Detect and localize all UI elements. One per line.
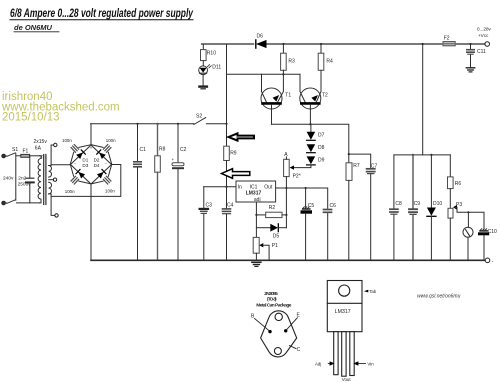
wire base rail [272, 124, 349, 163]
terminal sec-bot [55, 214, 58, 217]
wire T2 base lead [309, 105, 311, 125]
svg-text:S1: S1 [12, 147, 18, 153]
svg-text:Out: Out [264, 184, 273, 190]
junction raw feed [225, 123, 227, 125]
package drawing LM317 TO-220 [315, 281, 377, 383]
capacitor C3 [200, 209, 208, 214]
bridge inner diamond [71, 145, 112, 184]
wire T1 collector lead [262, 74, 267, 102]
wire [5, 155, 7, 157]
wire C5 bottom lead [305, 214, 307, 260]
wire top bus [202, 43, 486, 45]
diode D5 [270, 224, 286, 232]
resistor R4 [318, 53, 324, 70]
TO-220 tab divider [327, 302, 362, 304]
svg-text:C7: C7 [371, 164, 378, 170]
fuse F2 [443, 42, 455, 46]
svg-text:S2: S2 [196, 113, 202, 119]
svg-text:+: + [172, 157, 175, 162]
switch S1 pole 1 [7, 153, 15, 157]
wire P1 wiper to bus [263, 245, 269, 260]
wire R4 top lead [320, 44, 322, 53]
wire R8 top lead [157, 124, 159, 156]
junction R2 out-column [285, 214, 287, 216]
junction raw rail C1 [136, 123, 138, 125]
wire C7 branch [349, 154, 371, 168]
wire Out rail [276, 188, 328, 208]
svg-text:+: + [90, 145, 93, 150]
terminal mains-N [2, 201, 6, 205]
wire R6 to P3 [449, 189, 451, 209]
svg-text:de ON6MU: de ON6MU [14, 23, 53, 32]
svg-text:LM317: LM317 [335, 309, 351, 315]
svg-text:D5: D5 [273, 234, 280, 240]
wire T1 base lead [271, 105, 273, 125]
svg-text:6A: 6A [35, 146, 42, 152]
watermark [1, 91, 120, 124]
capacitor C4 [223, 209, 231, 214]
junction bus R3 [282, 43, 284, 45]
wire sense rail [394, 154, 450, 156]
wire R10 top lead [202, 44, 204, 50]
svg-text:E: E [297, 312, 301, 318]
svg-text:-: - [492, 258, 494, 264]
ground below C11 [466, 68, 474, 72]
transformer core [43, 155, 45, 205]
svg-text:adj: adj [254, 197, 261, 203]
capacitor C10 [480, 229, 488, 234]
svg-text:LM317: LM317 [246, 190, 262, 196]
bridge snubber path bottom-right [91, 164, 116, 188]
svg-text:R4: R4 [326, 58, 333, 64]
capacitor C9 [409, 209, 417, 214]
wire [30, 155, 40, 157]
wire adj down [255, 202, 257, 237]
wire meter bottom lead [467, 237, 469, 260]
svg-text:C5: C5 [308, 203, 315, 209]
wire raw feed upper [226, 44, 228, 124]
svg-text:0...28v: 0...28v [477, 27, 491, 32]
resistor R8 [155, 156, 161, 172]
svg-text:P1: P1 [272, 243, 278, 249]
S1 link [15, 153, 17, 200]
wire C9 top lead [412, 155, 414, 208]
arrow Adj [328, 362, 333, 365]
wire T2 emitter lead [316, 70, 321, 102]
junction C11 [469, 43, 471, 45]
wire C4 top lead [226, 187, 228, 208]
svg-text:240v: 240v [3, 176, 14, 182]
capacitor 2n2 [26, 177, 34, 179]
wire meter top lead [467, 212, 469, 227]
tab arrow [364, 290, 368, 293]
wire In horizontal [204, 186, 236, 188]
svg-text:C4: C4 [227, 203, 234, 209]
wire AC2 to bridge [51, 165, 121, 197]
wire adj to D5 [256, 227, 270, 229]
capacitor 100n bottom-left [71, 176, 79, 184]
junction bus sense feed [422, 43, 424, 45]
wire secondary centre tap [49, 179, 54, 181]
wire [17, 202, 40, 204]
svg-text:C11: C11 [477, 49, 486, 55]
package drawing 2N3055 [251, 291, 301, 357]
diode D2 [97, 150, 106, 159]
wire C5 top lead [305, 188, 307, 208]
wire C9 bottom lead [412, 215, 414, 260]
leader E [287, 318, 297, 329]
wire P2 top stub [285, 157, 287, 160]
svg-text:R6: R6 [455, 181, 462, 187]
wire raw feed to R9 [226, 124, 228, 146]
wire secondary top lead [49, 145, 54, 166]
capacitor C8 [390, 209, 398, 214]
svg-text:T1: T1 [285, 93, 291, 99]
wire C11 top lead [470, 44, 472, 49]
wire R6 top lead [449, 155, 451, 177]
svg-text:R8: R8 [159, 147, 166, 153]
wire R3 top lead [282, 44, 284, 53]
wire R9 to IC1 In [226, 161, 228, 187]
wire collector rail [227, 73, 301, 75]
capacitor C1 [134, 162, 141, 167]
svg-text:2N3055: 2N3055 [264, 291, 278, 297]
wire bridge minus down [90, 184, 92, 260]
resistor R7 [346, 163, 352, 181]
svg-text:D11: D11 [212, 65, 221, 71]
wire C6 bottom lead [327, 214, 329, 261]
wire sense feed vertical [422, 44, 424, 155]
svg-text:Vout: Vout [342, 377, 352, 382]
svg-text:In: In [238, 185, 242, 191]
capacitor C11 [467, 50, 474, 55]
wire out-column [285, 188, 287, 228]
switch S2 [194, 118, 227, 125]
wire C10 bottom lead [483, 236, 485, 261]
svg-text:F2: F2 [444, 36, 450, 42]
wire P3 bottom lead [449, 218, 451, 260]
svg-text:100n: 100n [106, 138, 116, 143]
junction adj R2 [255, 214, 257, 216]
svg-text:Tr: Tr [41, 155, 46, 160]
svg-text:D10: D10 [433, 201, 442, 207]
diode D1 [76, 150, 85, 159]
wire [5, 202, 7, 204]
resistor R9 [224, 146, 230, 160]
leg Vin [350, 332, 354, 376]
svg-text:100n: 100n [65, 189, 75, 194]
junction Out P2 [285, 187, 287, 189]
svg-text:P2*: P2* [293, 174, 301, 180]
leg Adj [334, 332, 338, 375]
bridge snubber path top-left [66, 140, 91, 164]
capacitor C2 [172, 163, 184, 169]
leader C [290, 346, 297, 349]
svg-text:D3: D3 [82, 163, 88, 168]
svg-text:2n2: 2n2 [18, 176, 26, 182]
LED D11 [199, 65, 211, 75]
resistor R3 [281, 53, 287, 70]
svg-text:C9: C9 [414, 201, 421, 207]
svg-text:C2: C2 [180, 147, 187, 153]
junction meter [467, 211, 469, 213]
fuse F1 [21, 154, 30, 157]
terminal sec-top [54, 143, 57, 146]
meter M1 [463, 227, 473, 237]
wire C1 top lead [137, 124, 139, 161]
svg-text:C: C [297, 347, 301, 353]
wire C4 bottom lead [226, 214, 228, 260]
terminal sec-mid [53, 178, 56, 181]
junction base rail to C7 branch [348, 153, 350, 155]
potentiometer P2 [284, 159, 294, 176]
wire C2 bottom lead [177, 169, 179, 260]
svg-text:R3: R3 [288, 58, 295, 64]
svg-text:R9: R9 [230, 151, 237, 157]
wire C7 bottom lead [370, 174, 372, 260]
wire R10 to LED [202, 61, 204, 66]
wire C3 bottom lead [203, 214, 205, 260]
TO-3 hole bottom [274, 348, 281, 355]
wire adj to R2 [256, 214, 265, 216]
wire LED to ground [202, 75, 204, 86]
TO-3 hole top [275, 313, 282, 320]
wire diode stack top [310, 124, 312, 132]
capacitor C7 [367, 169, 375, 174]
TO-220 outline [327, 281, 362, 332]
svg-text:R10: R10 [207, 51, 216, 57]
svg-text:C1: C1 [140, 147, 147, 153]
diode D3 [76, 169, 85, 178]
capacitor 100n bottom-right [103, 176, 111, 184]
transistor T1 [261, 88, 282, 109]
svg-text:Metal Can Package: Metal Can Package [256, 302, 292, 308]
arrow Vin [354, 362, 365, 365]
junction sense C9 [412, 154, 414, 156]
leader B [255, 319, 269, 331]
diode D4 [97, 169, 106, 178]
capacitor 100n top-left [71, 145, 79, 153]
potentiometer P3 [448, 205, 457, 218]
svg-text:2015/10/13: 2015/10/13 [2, 112, 60, 124]
resistor R10 [201, 50, 207, 61]
diode D7 [307, 132, 316, 141]
svg-text:T2: T2 [322, 93, 328, 99]
wire AC1 to bridge [51, 164, 70, 166]
wire C11 to ground [470, 55, 472, 68]
transistor T2 [300, 88, 321, 109]
transformer Tr primary [38, 156, 41, 203]
wire [17, 155, 21, 157]
bridge snubber path bottom-left [66, 164, 91, 188]
arrow marker 1 [229, 133, 255, 140]
terminal output plus [485, 42, 490, 47]
svg-text:C8: C8 [395, 201, 402, 207]
ground below D11 [199, 87, 207, 89]
diode D9 [307, 156, 316, 165]
junction raw rail C2 [177, 123, 179, 125]
junction sense D10 [430, 154, 432, 156]
bridge snubber path top-right [91, 140, 116, 164]
wire D10 bottom lead [430, 216, 432, 260]
svg-text:R7: R7 [353, 163, 360, 169]
junction Out C5 [305, 187, 307, 189]
wire D10 top lead [430, 155, 432, 208]
svg-text:(TO-3): (TO-3) [267, 296, 277, 302]
wire C2 top lead [177, 124, 179, 163]
capacitor 100n top-right [103, 145, 111, 153]
svg-text:C6: C6 [330, 203, 337, 209]
svg-text:6/8 Ampere 0...28 volt regulat: 6/8 Ampere 0...28 volt regulated power s… [10, 6, 194, 20]
svg-text:2500v: 2500v [18, 182, 32, 188]
wire C3 top lead [203, 187, 205, 208]
diode D6 [256, 40, 267, 48]
junction T2 base [309, 123, 311, 125]
diode D10 [427, 208, 436, 217]
svg-text:100n: 100n [62, 138, 72, 143]
svg-text:C10: C10 [488, 229, 497, 235]
capacitor C5 [302, 207, 310, 212]
wire bottom bus [91, 259, 485, 261]
resistor R2 [266, 212, 282, 217]
wire P3 wiper rail [455, 207, 484, 229]
svg-text:D7: D7 [318, 132, 325, 138]
svg-text:Vin: Vin [367, 362, 374, 367]
svg-text:100n: 100n [105, 189, 115, 194]
junction In node [225, 186, 227, 188]
wire bridge plus up [91, 124, 194, 145]
diode D8 [307, 144, 316, 153]
wire C8 bottom lead [393, 215, 395, 260]
terminal mains-L [2, 154, 6, 158]
svg-text:Tab: Tab [369, 289, 376, 294]
arrow marker 2 [222, 169, 250, 179]
wire secondary bottom lead [49, 194, 55, 216]
ground on bus [252, 262, 261, 266]
svg-text:Adj: Adj [315, 362, 321, 367]
svg-text:2x15v: 2x15v [34, 139, 48, 145]
potentiometer P1 [253, 237, 263, 253]
IC regulator IC1 box [236, 181, 276, 202]
junction R3 emitter [282, 73, 284, 75]
TO-220 hole [339, 285, 350, 296]
switch S1 pole 2 [7, 200, 15, 204]
wire R8 bottom lead [157, 172, 159, 260]
wire R2 to out-column [282, 214, 286, 216]
wire T1 emitter lead [278, 70, 284, 102]
wire C8 top lead [393, 155, 395, 208]
junction raw rail R8 [156, 123, 158, 125]
svg-text:~: ~ [74, 160, 77, 165]
svg-text:D9: D9 [318, 158, 325, 164]
svg-text:F1: F1 [23, 149, 29, 155]
wire T2 collector lead [300, 74, 305, 102]
TO-3 can outline [261, 311, 297, 357]
pin E dot [284, 329, 287, 332]
capacitor C6 [324, 210, 332, 213]
svg-text:D4: D4 [94, 163, 100, 168]
pin B dot [268, 330, 271, 333]
svg-text:C3: C3 [206, 203, 213, 209]
resistor R6 [448, 177, 454, 189]
svg-text:+Vcc: +Vcc [478, 33, 489, 38]
wire P1 bottom lead [255, 253, 257, 260]
wire P2 bottom lead [285, 177, 287, 188]
svg-text:www.qsl.net/on6mu: www.qsl.net/on6mu [417, 294, 461, 300]
title [10, 6, 194, 32]
capacitor 2n2 wire [29, 156, 31, 178]
wire [29, 183, 31, 203]
svg-text:D8: D8 [318, 145, 325, 151]
transformer Tr secondary [49, 166, 52, 194]
junction bus R4 [320, 43, 322, 45]
wire R7 bottom lead [348, 180, 350, 260]
wire D9 to P2 wiper [294, 165, 311, 168]
terminal output minus [485, 258, 490, 263]
svg-text:R2: R2 [269, 205, 276, 211]
wire C1 bottom lead [137, 168, 139, 260]
svg-text:D6: D6 [257, 33, 264, 39]
leg Vout [342, 332, 346, 377]
